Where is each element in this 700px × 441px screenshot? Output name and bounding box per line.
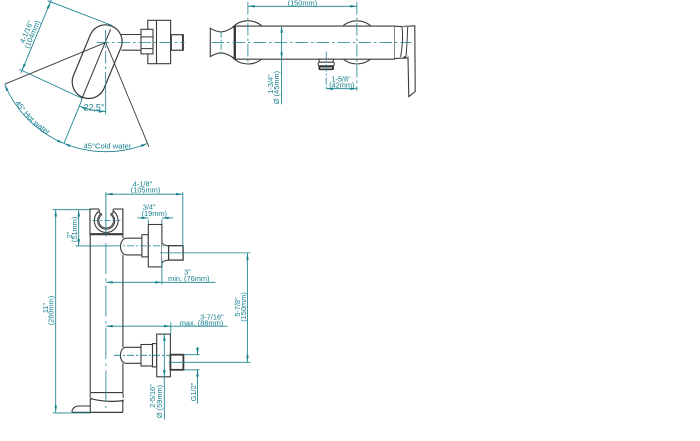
svg-text:min. (76mm): min. (76mm)	[168, 274, 209, 283]
right escutcheon centerline	[356, 2, 358, 91]
outlet ring	[318, 62, 334, 66]
bar centerline	[212, 41, 412, 43]
dimension 1-3/4in dia 45mm bar	[266, 26, 283, 104]
left escutcheon centerline	[247, 2, 249, 64]
bottom outlet centerline	[114, 354, 170, 356]
svg-text:22,5°: 22,5°	[84, 102, 105, 112]
base bottom line	[72, 411, 123, 413]
top union disc	[148, 225, 162, 267]
base collar sides	[90, 399, 123, 413]
top outlet centerline	[114, 245, 167, 247]
svg-text:(150mm): (150mm)	[239, 292, 248, 322]
outlet centerline	[325, 52, 327, 90]
bottom union shaft	[120, 347, 141, 363]
wall foot	[72, 406, 90, 412]
dimension 3-7/16in max (88mm)	[106, 312, 227, 334]
45 deg cold water arc	[64, 143, 148, 151]
svg-text:max. (88mm): max. (88mm)	[180, 318, 224, 327]
top union taper	[162, 243, 169, 264]
dimension (150mm) between escutcheons	[248, 0, 357, 8]
svg-text:Ø (45mm): Ø (45mm)	[272, 71, 281, 104]
svg-text:(150mm): (150mm)	[288, 0, 318, 8]
dimension 11in (280mm)	[41, 210, 91, 413]
right escutcheon circle	[335, 21, 378, 64]
top union shaft	[121, 238, 142, 255]
rail right edge (lower)	[122, 363, 124, 392]
dimension 2-5/16in dia 59mm disc	[148, 334, 166, 420]
rail centerline	[105, 192, 107, 408]
22.5 deg label	[84, 102, 105, 112]
svg-text:45° Hot water: 45° Hot water	[13, 99, 52, 137]
holder bottom thick line	[90, 233, 124, 235]
svg-text:(51mm): (51mm)	[70, 217, 79, 242]
dimension 4-1/16in (104mm) handle length	[17, 0, 113, 98]
bottom union step	[153, 344, 157, 367]
svg-text:Ø (59mm): Ø (59mm)	[155, 385, 164, 418]
svg-text:G1/2": G1/2"	[189, 382, 198, 401]
svg-text:45°Cold water: 45°Cold water	[84, 141, 132, 150]
dimension 1-5/8in (42mm) outlet offset	[326, 75, 357, 91]
hot water label	[13, 99, 52, 137]
dimension 2in (51mm)	[53, 210, 115, 246]
45 deg hot water arc	[5, 84, 64, 143]
handle screw dot	[403, 56, 406, 58]
cold water label	[84, 141, 132, 150]
left end cap	[210, 26, 235, 58]
dimension 3/4in (19mm) disc width	[137, 203, 173, 224]
top union collar	[142, 235, 148, 257]
dimension G1/2 thread	[189, 347, 199, 404]
bottom stub axis extension	[169, 361, 251, 363]
rail right edge (upper)	[122, 235, 124, 239]
handle cap	[395, 26, 409, 58]
dimension 4-1/8in (105mm)	[106, 180, 183, 248]
top G1/2 stub	[169, 246, 184, 260]
svg-text:(280mm): (280mm)	[47, 296, 56, 326]
handle axis extension line	[64, 100, 82, 144]
dimension 5-7/8in (150mm) between outlets	[233, 253, 249, 362]
hot-limit line	[5, 42, 106, 84]
lever handle (stadium, top view)	[72, 25, 122, 99]
svg-text:(19mm): (19mm)	[142, 209, 167, 218]
rail right edge (mid)	[122, 255, 124, 347]
pivot vertical reference line	[105, 30, 107, 115]
bottom union collar	[141, 345, 153, 367]
base rim dip curve	[90, 398, 124, 402]
hex nut (side profile)	[141, 29, 153, 54]
rail left edge	[89, 235, 91, 393]
top stub axis extension	[160, 252, 250, 254]
escutcheon back plate (top view, side profile)	[148, 20, 171, 63]
base rim top edge	[90, 393, 123, 398]
handle shaft lines	[121, 35, 141, 51]
bottom union disc	[157, 334, 171, 377]
wall pipe stub (top view)	[171, 34, 183, 50]
22.5 deg arc	[79, 106, 105, 113]
svg-text:(105mm): (105mm)	[131, 186, 161, 195]
G1/2 extension lines	[183, 355, 199, 370]
outlet flare	[319, 59, 335, 62]
svg-text:(42mm): (42mm)	[329, 81, 354, 90]
fitting centerline (horizontal)	[97, 41, 185, 43]
handle axis line	[82, 29, 111, 99]
holder bracket body	[90, 209, 124, 234]
cold-limit line	[106, 42, 149, 146]
outlet aerator band	[318, 66, 334, 70]
dimension 3in min (76mm)	[106, 259, 216, 285]
left cap centerline	[220, 32, 222, 55]
bottom G1/2 stub	[170, 355, 183, 370]
handset holder C-clip	[94, 211, 118, 233]
mixer handle blade	[402, 26, 415, 97]
left escutcheon circle	[226, 21, 269, 64]
holder crosshair	[93, 220, 121, 222]
bar body	[235, 26, 395, 60]
